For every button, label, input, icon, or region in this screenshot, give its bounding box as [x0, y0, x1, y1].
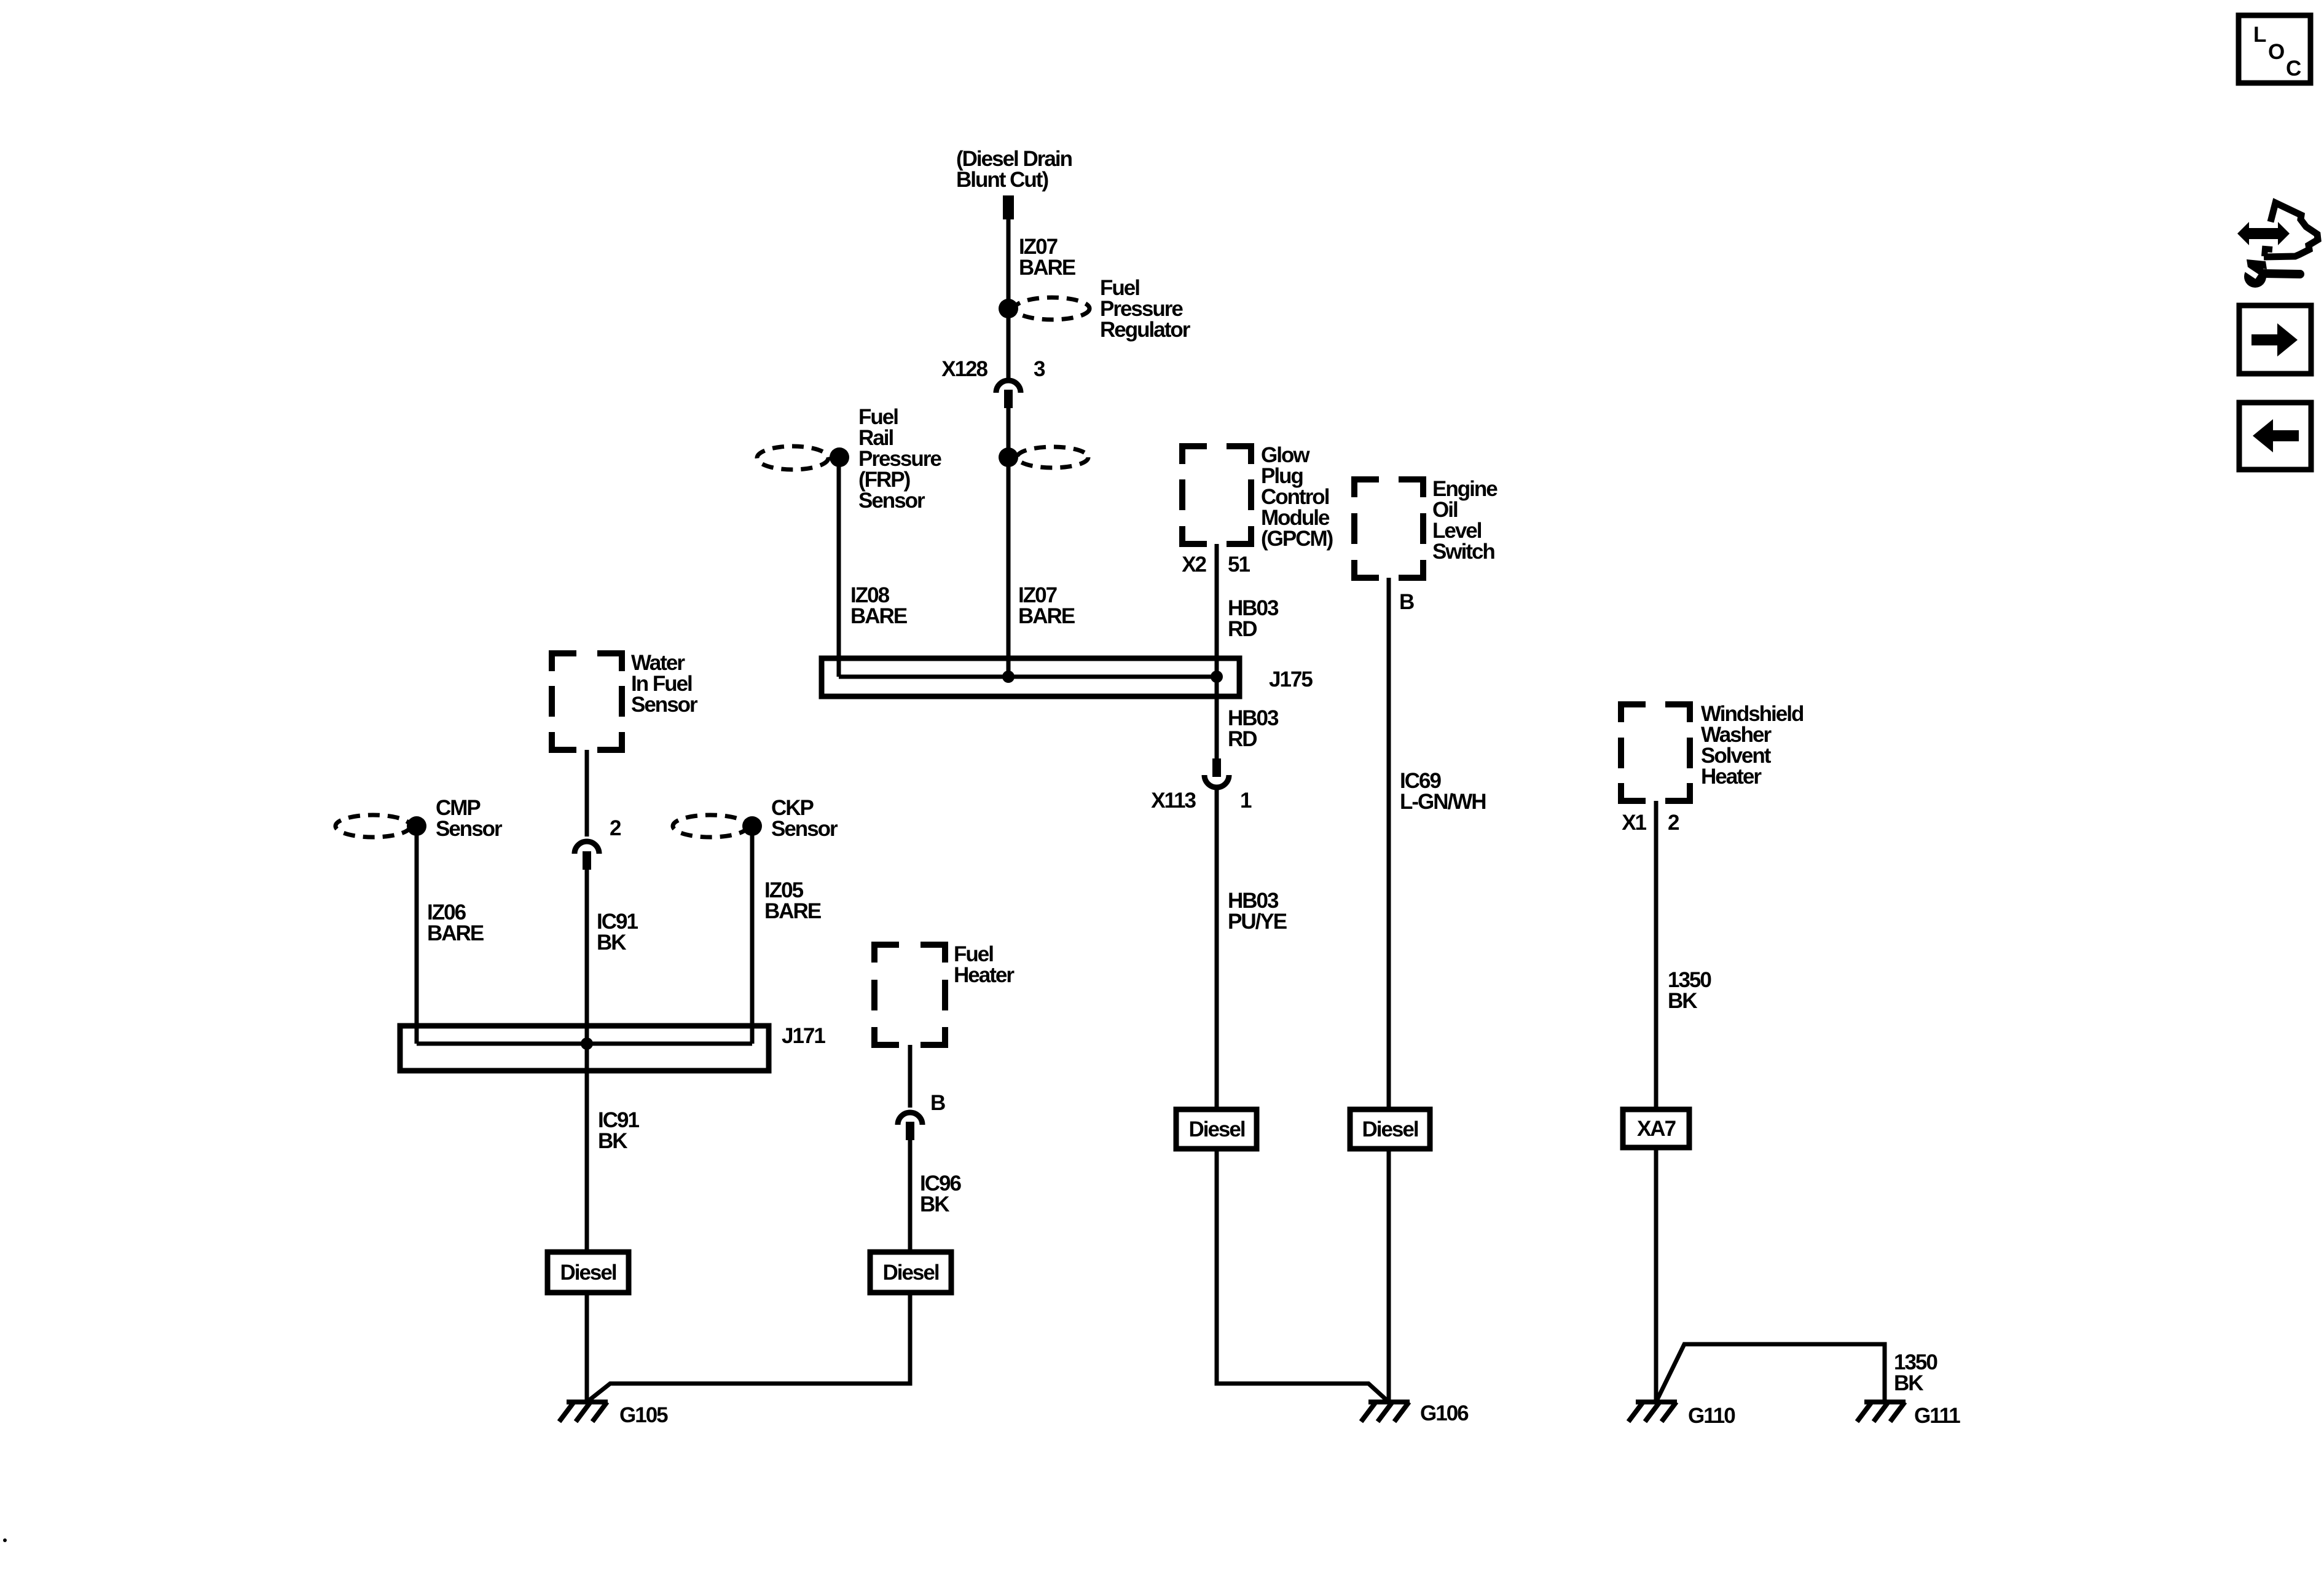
svg-text:X1: X1 [1622, 811, 1646, 835]
svg-text:X113: X113 [1151, 789, 1196, 813]
svg-text:B: B [930, 1091, 945, 1115]
wire fuel heater to connector [908, 1045, 913, 1108]
component ellipse on IZ07 [1017, 447, 1088, 468]
svg-text:O: O [2268, 40, 2284, 64]
harness view icon: double arrow [2237, 222, 2290, 245]
wire to G106 right [1387, 1149, 1391, 1402]
svg-text:1: 1 [1240, 789, 1252, 813]
svg-text:2: 2 [1668, 811, 1679, 835]
ground G111 [1857, 1402, 1906, 1422]
connector X113 male pin [1212, 758, 1221, 777]
svg-text:XA7: XA7 [1637, 1117, 1676, 1141]
svg-text:RD: RD [1228, 617, 1257, 641]
connector XA7 box [1623, 1109, 1689, 1148]
J175 junction HB03 [1211, 671, 1223, 683]
svg-text:BARE: BARE [764, 899, 821, 923]
svg-text:2: 2 [610, 816, 621, 840]
wire IZ08 [837, 457, 841, 677]
svg-text:B: B [1399, 590, 1414, 614]
fuel pressure regulator ellipse [1015, 297, 1089, 320]
svg-text:X2: X2 [1182, 553, 1206, 577]
J171 junction IC91 [581, 1038, 593, 1050]
svg-text:BK: BK [598, 1129, 627, 1153]
connector male pin (pin 2) [583, 851, 591, 870]
ground G105 [559, 1402, 608, 1422]
svg-text:51: 51 [1228, 553, 1250, 577]
wire IZ05 [750, 826, 755, 1044]
connector female (pin B) [898, 1112, 922, 1125]
LOC legend box [2239, 15, 2310, 83]
svg-text:Regulator: Regulator [1100, 318, 1191, 342]
svg-text:Sensor: Sensor [858, 489, 925, 513]
previous page arrow box [2239, 403, 2311, 470]
wire IZ07 upper [1007, 219, 1011, 379]
svg-text:J171: J171 [782, 1024, 825, 1048]
wire to G106 [1217, 1149, 1389, 1402]
ground G110 [1628, 1402, 1677, 1422]
J175 internal bus [839, 675, 1217, 679]
wire HB03 PU/YE [1215, 790, 1219, 1109]
ground G106 [1361, 1402, 1410, 1422]
svg-text:Sensor: Sensor [631, 693, 698, 717]
svg-text:BK: BK [1668, 989, 1697, 1013]
svg-text:J175: J175 [1269, 667, 1313, 691]
J175 junction IZ07 [1002, 671, 1015, 683]
CMP sensor dot [407, 816, 426, 836]
svg-text:C: C [2286, 57, 2301, 81]
svg-text:G110: G110 [1688, 1404, 1735, 1428]
svg-text:G105: G105 [619, 1403, 668, 1427]
water in fuel sensor box [549, 653, 625, 750]
FRP sensor dot [830, 447, 849, 467]
svg-text:BARE: BARE [1018, 604, 1075, 628]
svg-text:3: 3 [1034, 357, 1045, 381]
svg-text:(GPCM): (GPCM) [1261, 527, 1333, 551]
svg-text:Sensor: Sensor [436, 817, 503, 841]
splice dot FRP column [999, 447, 1018, 467]
next page arrow box [2239, 305, 2311, 374]
wire to G105 [585, 1293, 589, 1402]
page artifact dot [3, 1538, 7, 1542]
connector X128 female [996, 380, 1021, 393]
svg-text:Blunt Cut): Blunt Cut) [956, 168, 1048, 192]
svg-text:Heater: Heater [954, 963, 1015, 987]
fuel heater box [871, 945, 948, 1045]
CKP sensor dot [742, 816, 762, 836]
svg-text:Sensor: Sensor [771, 817, 838, 841]
CMP sensor ellipse [336, 815, 410, 837]
wire IC96 to G105 [587, 1293, 910, 1402]
wire IZ06 [415, 826, 419, 1044]
svg-text:BK: BK [597, 931, 626, 955]
FRP sensor ellipse [757, 446, 828, 470]
svg-text:G111: G111 [1914, 1404, 1960, 1428]
wire water in fuel to connector [585, 750, 589, 837]
harness view icon: component outline [2264, 203, 2318, 257]
svg-text:Switch: Switch [1432, 540, 1494, 564]
wire IC96 [908, 1140, 913, 1252]
svg-text:G106: G106 [1420, 1401, 1469, 1425]
svg-text:PU/YE: PU/YE [1228, 910, 1287, 934]
svg-text:Diesel: Diesel [560, 1261, 616, 1285]
svg-text:RD: RD [1228, 727, 1257, 751]
Diesel option box (GPCM) [1176, 1109, 1257, 1149]
wire HB03 RD upper [1215, 544, 1219, 758]
J171 internal bus [417, 1042, 752, 1046]
engine oil level switch box [1351, 479, 1426, 578]
svg-text:BARE: BARE [1019, 256, 1075, 280]
svg-text:BK: BK [920, 1192, 949, 1216]
svg-text:BARE: BARE [427, 921, 484, 945]
Diesel option box (IC91) [548, 1252, 629, 1293]
wire IC91 through J171 [585, 870, 589, 1252]
wire to G111 [1656, 1344, 1885, 1402]
wire IZ07 lower [1007, 407, 1011, 677]
wire to G110 [1654, 1148, 1659, 1402]
svg-text:X128: X128 [941, 357, 987, 381]
splice pack J171 [400, 1026, 769, 1071]
blunt cut terminal [1003, 195, 1014, 219]
svg-text:Diesel: Diesel [1362, 1117, 1418, 1141]
windshield washer solvent heater box [1618, 704, 1693, 801]
glow plug control module box [1179, 446, 1254, 544]
CKP sensor ellipse [673, 815, 748, 837]
wire 1350 BK upper [1654, 801, 1659, 1109]
svg-text:Heater: Heater [1701, 765, 1762, 789]
svg-text:Diesel: Diesel [1188, 1117, 1244, 1141]
connector X113 female [1204, 775, 1229, 787]
svg-text:L: L [2253, 23, 2266, 47]
connector female (pin 2) [575, 841, 599, 854]
svg-text:BK: BK [1894, 1371, 1923, 1395]
harness view icon: wrench [2242, 259, 2300, 288]
connector male pin (pin B) [906, 1122, 914, 1140]
svg-text:Diesel: Diesel [882, 1261, 938, 1285]
svg-text:BARE: BARE [850, 604, 907, 628]
wire IC69 [1387, 578, 1391, 1109]
Diesel option box (IC96) [870, 1252, 951, 1293]
splice dot fuel pressure regulator [999, 299, 1018, 318]
splice pack J175 [822, 658, 1239, 696]
svg-text:L-GN/WH: L-GN/WH [1400, 790, 1486, 814]
Diesel option box (oil switch) [1350, 1109, 1430, 1149]
connector X128 male pin [1004, 390, 1013, 408]
